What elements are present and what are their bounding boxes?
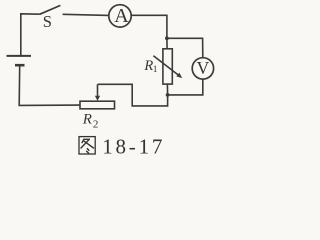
svg-text:2: 2 <box>93 118 99 130</box>
resistor R1 body <box>163 49 172 84</box>
resistor R1 variable arrow <box>153 56 182 78</box>
wire ammeter to top-right corner down to node <box>131 15 167 38</box>
wire R1 top lead <box>166 38 168 49</box>
svg-text:V: V <box>197 58 210 78</box>
ammeter A circle <box>109 5 131 27</box>
svg-text:A: A <box>114 5 129 27</box>
svg-text:18-17: 18-17 <box>102 135 165 159</box>
rheostat R2 body <box>80 101 115 109</box>
voltmeter V circle <box>192 58 213 79</box>
caption hanzi tu (drawn) <box>79 137 95 154</box>
wire node down and left to R2 slider riser <box>98 84 168 106</box>
wire top-left from switch pivot to corner <box>21 14 40 55</box>
wire switch right contact to ammeter <box>63 14 109 15</box>
wire battery negative lead down and bottom wire to R2 <box>19 65 80 105</box>
battery short plate (negative terminal) <box>15 64 25 67</box>
svg-text:1: 1 <box>153 65 158 75</box>
rheostat R2 slider arrow <box>95 84 100 101</box>
wire R1 bottom lead to node <box>166 84 168 95</box>
svg-text:S: S <box>43 12 52 31</box>
switch S blade (open) <box>40 5 61 14</box>
node top junction dot <box>165 36 169 40</box>
wire node to voltmeter bottom <box>168 79 203 95</box>
wire node to voltmeter top <box>167 38 203 58</box>
svg-text:R: R <box>82 112 92 128</box>
battery long plate (positive terminal) <box>7 55 32 57</box>
node bottom junction dot <box>166 93 170 97</box>
